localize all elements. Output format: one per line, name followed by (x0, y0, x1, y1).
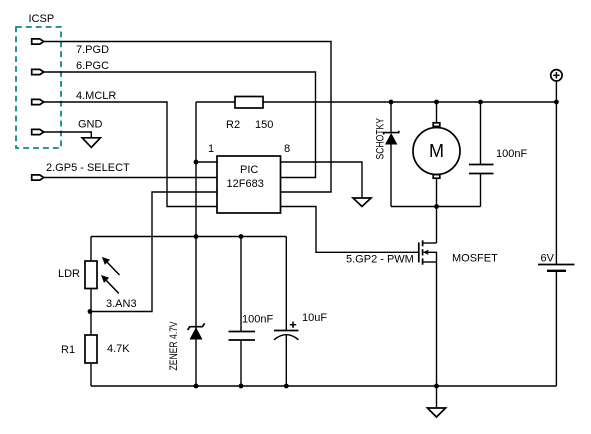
IC U1 PIC12F683 (217, 156, 281, 213)
wire +6V top rail (263, 101, 556, 103)
svg-text:ZENER 4.7V: ZENER 4.7V (168, 321, 180, 370)
svg-text:12F683: 12F683 (227, 178, 264, 190)
resistor R2 (235, 97, 263, 109)
schottky diode D1 (384, 102, 399, 207)
capacitor C1 100nF upper (469, 102, 494, 207)
svg-text:SCHOTKY: SCHOTKY (375, 118, 387, 160)
wire LDR top lead (90, 237, 92, 262)
node C2-rail junction (239, 384, 244, 389)
node VDD-zener junction (194, 234, 199, 239)
wire ground bottom rail (91, 385, 556, 387)
LDR body (85, 261, 97, 289)
svg-text:6.PGC: 6.PGC (76, 60, 109, 72)
svg-text:10uF: 10uF (302, 312, 327, 324)
wire 6.PGC net (44, 72, 316, 178)
connector pin 2.GP5 (32, 175, 44, 180)
svg-text:PIC: PIC (240, 164, 258, 176)
connector pin GND (32, 129, 44, 134)
svg-text:5.GP2 - PWM: 5.GP2 - PWM (346, 254, 414, 266)
svg-text:8: 8 (284, 143, 290, 155)
svg-text:150: 150 (255, 119, 273, 131)
resistor R1 (85, 335, 97, 363)
svg-text:M: M (429, 141, 444, 161)
wire R1 top lead (90, 312, 92, 336)
svg-text:R1: R1 (61, 344, 75, 356)
svg-text:ICSP: ICSP (29, 13, 55, 25)
node C1 top junction (478, 100, 483, 105)
connector pin 7.PGD (32, 39, 44, 44)
wire VDD mid rail (91, 236, 286, 238)
wire 4.MCLR net (44, 102, 218, 207)
ground symbol pin8 (353, 198, 371, 207)
ground symbol ICSP (82, 138, 100, 148)
motor M1 (413, 102, 460, 207)
power +6V symbol (551, 70, 562, 81)
svg-text:LDR: LDR (58, 268, 80, 280)
wire R1 bottom lead (90, 363, 92, 386)
wire R2 left lead (196, 101, 235, 103)
node LDR-R1 junction (88, 309, 93, 314)
wire motor low side (391, 206, 481, 208)
svg-text:GND: GND (78, 119, 103, 131)
battery B1 (538, 265, 575, 271)
ground symbol main (427, 386, 445, 417)
node motor top junction (434, 100, 439, 105)
plus sign of C3 (290, 322, 296, 328)
wire VDD vertical (R2 to pin1 to zener) (195, 102, 197, 386)
connector pin 6.PGC (32, 69, 44, 74)
capacitor C2 100nF lower (229, 237, 256, 387)
svg-text:6V: 6V (541, 253, 555, 265)
transistor Q1 MOSFET (419, 240, 437, 264)
node VDD-100nF junction (239, 234, 244, 239)
node rail-battery junction (554, 100, 559, 105)
svg-text:100nF: 100nF (242, 314, 273, 326)
ICSP header dashed box (16, 27, 61, 148)
capacitor C3 10uF electrolytic (274, 237, 299, 387)
wire 2.GP5 SELECT net (44, 177, 218, 179)
wire MOSFET drain (436, 207, 438, 244)
svg-text:3.AN3: 3.AN3 (106, 298, 137, 310)
svg-text:4.MCLR: 4.MCLR (76, 90, 116, 102)
wire 7.PGD net (44, 42, 332, 193)
LDR arrow 1 (102, 257, 120, 275)
svg-text:R2: R2 (226, 119, 240, 131)
node motor low junction (434, 204, 439, 209)
svg-text:7.PGD: 7.PGD (76, 44, 109, 56)
svg-text:2.GP5 - SELECT: 2.GP5 - SELECT (46, 162, 130, 174)
node pin1 junction (194, 160, 199, 165)
node MOSFET-rail junction (434, 384, 439, 389)
svg-text:4.7K: 4.7K (107, 343, 130, 355)
wire PIC pin1 stub (196, 161, 217, 163)
svg-text:MOSFET: MOSFET (452, 253, 498, 265)
svg-text:100nF: 100nF (496, 148, 527, 160)
wire battery negative (555, 271, 557, 386)
zener diode D2 4.7V (188, 323, 205, 339)
wire PIC pin5 to MOSFET gate (281, 207, 419, 253)
node schottky top junction (389, 100, 394, 105)
wire GND pin to ground (44, 132, 92, 138)
LDR arrow 2 (101, 275, 119, 293)
wire battery positive (555, 81, 557, 265)
wire MOSFET source (436, 262, 438, 386)
wire LDR bottom lead (90, 289, 92, 312)
wire PIC pin3 to LDR junction (90, 192, 217, 312)
svg-text:1: 1 (208, 143, 214, 155)
connector pin 4.MCLR (32, 99, 44, 104)
wire PIC pin8 to ground (281, 162, 363, 198)
node zener-rail junction (194, 384, 199, 389)
node C3-rail junction (284, 384, 289, 389)
